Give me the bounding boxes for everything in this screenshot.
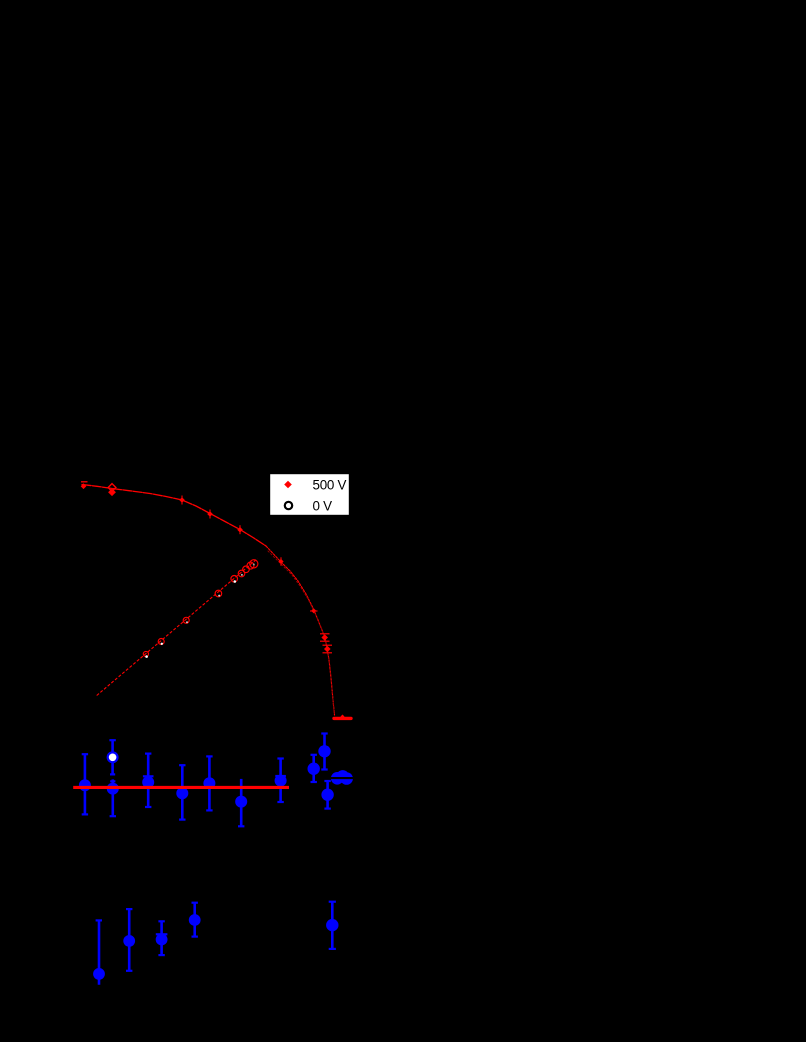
svg-text:500 V: 500 V xyxy=(313,477,347,492)
svg-text:0 V: 0 V xyxy=(313,499,333,514)
